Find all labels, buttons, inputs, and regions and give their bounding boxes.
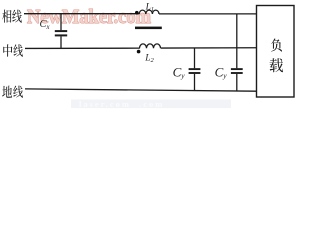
choke core bar [135,27,162,30]
inductor L1 (phase winding of common-mode choke) [139,10,159,14]
load box (负载) [257,6,295,98]
watermark NewMaker.com (top) [27,6,151,28]
capacitor Cy1 (neutral to earth) [189,48,201,91]
capacitor Cx (X-cap between phase and neutral) [55,14,67,48]
label 地线 (earth line) [2,86,23,98]
label 负 [271,38,282,51]
polarity dot of L1 [135,11,139,15]
wire: neutral line left segment [25,47,140,49]
wire: phase line left segment [24,13,140,15]
wire: earth line [25,89,257,91]
inductor L2 (neutral winding of common-mode choke) [140,44,161,48]
wire: neutral line right segment [161,47,257,49]
label 载 [270,58,284,72]
svg-text:laser.com .com: laser.com .com [79,99,164,109]
capacitor Cy2 (phase to earth) [231,14,243,91]
polarity dot of L2 [137,50,141,54]
watermark band (bottom, faint) [71,99,231,109]
label 中线 (neutral line) [3,44,23,56]
label 相线 (phase line) [2,10,22,23]
wire: phase line right segment [159,13,257,15]
